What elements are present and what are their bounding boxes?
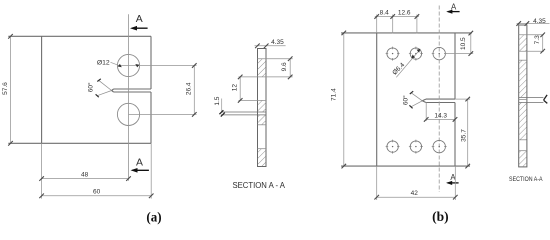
section bar (a) division and extension 76.9	[239, 76, 293, 78]
tick 9.6 bottom	[288, 75, 293, 80]
tick 26.4 bottom	[192, 112, 197, 117]
tick 4.35 (a) left	[255, 44, 260, 49]
plate (a) bottom edge with extension	[8, 142, 151, 144]
plate (a) right edge upper	[150, 36, 152, 89]
dimension 57.6 line	[10, 36, 12, 143]
tick 4.35 (b) left	[516, 21, 521, 26]
notch slit (b) upper line	[426, 98, 455, 100]
hole (b) r1c2	[410, 48, 421, 59]
section bar (b) hatch segment 1	[519, 35, 527, 51]
tick 60 left	[39, 194, 44, 199]
dimension 10.5 extension line	[444, 53, 473, 55]
svg-text:1.5: 1.5	[214, 96, 221, 105]
tick 12 top	[238, 75, 243, 80]
angle 60 deg (a) tick upper	[97, 79, 101, 82]
dimension 8.4 and 12.6 line	[375, 16, 419, 18]
hole (b) r1c1	[387, 48, 398, 59]
hole (a) top	[117, 54, 139, 76]
extension line right edge below plate (b)	[454, 166, 456, 200]
angle 60 deg (b) tick lower	[409, 105, 412, 108]
svg-text:26.4: 26.4	[186, 82, 193, 95]
leader Ø12	[111, 62, 119, 65]
dimension 4.35 (b) line	[517, 23, 550, 25]
dimension 4.35 (a) line	[255, 45, 286, 47]
tab mid division (b)	[519, 98, 527, 100]
section bar (a) division 149	[258, 148, 267, 150]
section bar (a) outline	[258, 49, 267, 167]
dimension 35.7 line	[467, 99, 469, 166]
hole (a) top centerline extension right	[118, 65, 197, 67]
dimension 14.3 extension line left	[425, 103, 427, 122]
svg-text:(a): (a)	[146, 211, 162, 226]
tab chevron arrow (b) lower stroke	[544, 100, 548, 103]
svg-text:10.5: 10.5	[460, 37, 467, 50]
section bar (b) hatch segment 4	[519, 151, 527, 167]
tick 12 bottom	[238, 98, 243, 103]
svg-text:Ø12: Ø12	[97, 59, 110, 66]
dimension 35.7 extension top	[455, 98, 470, 100]
notch slit (a) lower line	[114, 91, 151, 93]
dimension 7.3 line	[542, 35, 544, 51]
section cut line A-A (a) vertical	[128, 14, 130, 181]
tick 57.6 bottom	[8, 141, 13, 146]
angle 60 deg (a) leader lower	[97, 91, 112, 96]
notch tab (b) upper line	[519, 96, 544, 98]
section arrow A top (a)	[130, 14, 148, 31]
svg-text:A: A	[136, 158, 143, 169]
svg-text:12: 12	[231, 84, 238, 92]
tick 4.35 (a) right	[264, 44, 269, 49]
plate (a) right edge lower	[150, 92, 152, 143]
svg-text:SECTION A-A: SECTION A-A	[509, 176, 543, 183]
dimension 42 line	[377, 196, 456, 198]
tick 35.7 top	[465, 97, 470, 102]
tick 42 right	[453, 195, 458, 200]
notch tab (a) lower line	[221, 114, 266, 116]
tick 35.7 bottom	[465, 164, 470, 169]
svg-text:4.35: 4.35	[271, 39, 284, 46]
notch slit (b) lower line	[426, 102, 455, 104]
tick 10.5 bottom	[469, 51, 474, 56]
hole (a) bottom centerline extension right	[129, 113, 197, 115]
notch tab (a) upper line	[221, 111, 266, 113]
angle 60 deg (b) leader upper	[411, 93, 422, 101]
hole (b) r1c3	[433, 47, 445, 59]
section bar (a) hatch segment 4	[258, 149, 267, 167]
svg-text:42: 42	[411, 190, 419, 197]
tick 7.3 top	[540, 33, 545, 38]
notch tip (b)	[422, 99, 426, 102]
tick 1.5 lower	[221, 113, 225, 117]
tick 48 right	[126, 176, 131, 181]
leader 1.5	[221, 99, 223, 113]
section bar (b) outline	[519, 25, 527, 167]
notch tip (a)	[112, 89, 114, 92]
section bar (b) division 60.2	[519, 59, 527, 61]
dimension 12 line	[239, 77, 241, 101]
plate (b) bottom edge with extensions	[341, 165, 470, 167]
section arrow A top (b)	[446, 3, 459, 14]
svg-text:8.4: 8.4	[380, 10, 389, 17]
section bar (b) division 150.7	[519, 150, 527, 152]
extension line col2 (b)	[416, 15, 418, 34]
svg-text:SECTION A - A: SECTION A - A	[232, 181, 285, 190]
svg-text:57.6: 57.6	[2, 82, 9, 95]
tick 1.5 upper	[219, 110, 223, 114]
svg-text:48: 48	[81, 172, 89, 179]
section arrow A bottom (a)	[131, 158, 149, 173]
svg-text:A: A	[136, 14, 143, 25]
svg-text:35.7: 35.7	[461, 129, 468, 142]
tick 48 left	[39, 176, 44, 181]
dash-dot section line (b)	[438, 6, 440, 193]
section bar (a) division at hole top	[258, 58, 293, 60]
tab chevron arrow (b) upper stroke	[544, 95, 548, 100]
arrowhead Ø6.4 upper-right on hole edge	[417, 49, 421, 53]
dimension 71.4 line	[343, 33, 345, 166]
tick 42 left	[374, 195, 379, 200]
tick 26.4 top	[192, 63, 197, 68]
arrowhead Ø12 right on hole edge	[135, 64, 139, 67]
hole (b) r2c2	[410, 141, 421, 152]
extension line left edge above plate (b)	[376, 15, 378, 33]
extension line left edge below plate (b)	[376, 166, 378, 200]
section bar (b) division and extension 51.2	[519, 50, 544, 52]
tick 12.6 right	[415, 14, 420, 19]
angle 60 deg (a) leader upper	[99, 80, 112, 90]
arrowhead Ø12 left on hole edge	[118, 64, 122, 67]
section bar (b) hatch segment 2	[519, 60, 527, 97]
hole (a) bottom	[117, 103, 139, 125]
dimension 14.3 line	[426, 118, 455, 120]
extension line left edge below plate (a)	[41, 143, 43, 198]
dimension 10.5 line	[470, 33, 472, 54]
section bar (a) division and extension 100.4	[239, 99, 267, 101]
plate (b) right edge upper	[454, 33, 456, 99]
svg-text:14.3: 14.3	[434, 112, 447, 119]
dimension 60 line	[42, 195, 152, 197]
extension line right edge below plate (a)	[150, 143, 152, 198]
angle 60 deg (b) leader lower	[411, 101, 423, 107]
plate (b) left edge	[376, 33, 378, 166]
notch slit (a) upper line	[114, 88, 151, 90]
svg-text:9.6: 9.6	[281, 62, 288, 71]
svg-text:60: 60	[93, 189, 101, 196]
angle 60 deg (b) tick upper	[410, 91, 413, 94]
plate (a) left edge	[41, 36, 43, 143]
plate (b) top edge with extensions	[341, 33, 472, 166]
section bar (a) division 124.8	[258, 124, 267, 126]
svg-text:60°: 60°	[402, 95, 410, 105]
tick 14.3 right	[453, 117, 458, 122]
section arrow A bottom (b)	[446, 173, 459, 185]
svg-text:4.35: 4.35	[533, 18, 546, 25]
leader Ø6.4	[396, 50, 420, 78]
svg-text:7.3: 7.3	[534, 35, 541, 44]
holes (b) 6x with center marks	[386, 47, 447, 154]
notch tab (b) lower line	[519, 102, 544, 104]
svg-text:71.4: 71.4	[330, 88, 337, 101]
plate (b) right edge lower	[454, 103, 456, 167]
tick 71.4 top	[342, 31, 347, 36]
svg-text:(b): (b)	[432, 210, 449, 225]
section bar (b) division and extension 34.8	[519, 34, 544, 36]
svg-text:12.6: 12.6	[398, 10, 411, 17]
plate (a) top edge with extension	[8, 36, 151, 143]
tick 60 right	[149, 194, 154, 199]
arrowhead Ø6.4 lower-left on hole edge	[411, 55, 415, 59]
svg-text:60°: 60°	[87, 82, 95, 92]
section bar (a) hatch segment 3	[258, 115, 267, 125]
tick 7.3 bottom	[540, 49, 545, 54]
tick 14.3 left	[424, 117, 429, 122]
tick 8.4 left	[374, 14, 379, 19]
dimension 26.4 line	[193, 66, 195, 115]
tick 71.4 bottom	[342, 164, 347, 169]
section bar (a) hatch segment 1	[258, 59, 267, 77]
hole (b) r2c1	[387, 141, 398, 152]
hole (b) r2c3	[433, 140, 445, 152]
angle 60 deg (a) tick lower	[96, 94, 99, 97]
dimension 48 line	[42, 178, 129, 180]
tick 57.6 top	[8, 34, 13, 39]
tick middle col1	[390, 14, 395, 19]
dimension 9.6 line	[289, 59, 291, 77]
section bar (b) hatch segment 3	[519, 103, 527, 140]
tick 10.5 top	[469, 31, 474, 36]
tick 4.35 (b) right	[525, 21, 530, 26]
section bar (b) division 139.8	[519, 139, 527, 141]
tick 9.6 top	[288, 56, 293, 61]
extension line col1 (b)	[392, 15, 394, 34]
section bar (a) hatch segment 2	[258, 100, 267, 112]
svg-text:A: A	[451, 3, 457, 12]
